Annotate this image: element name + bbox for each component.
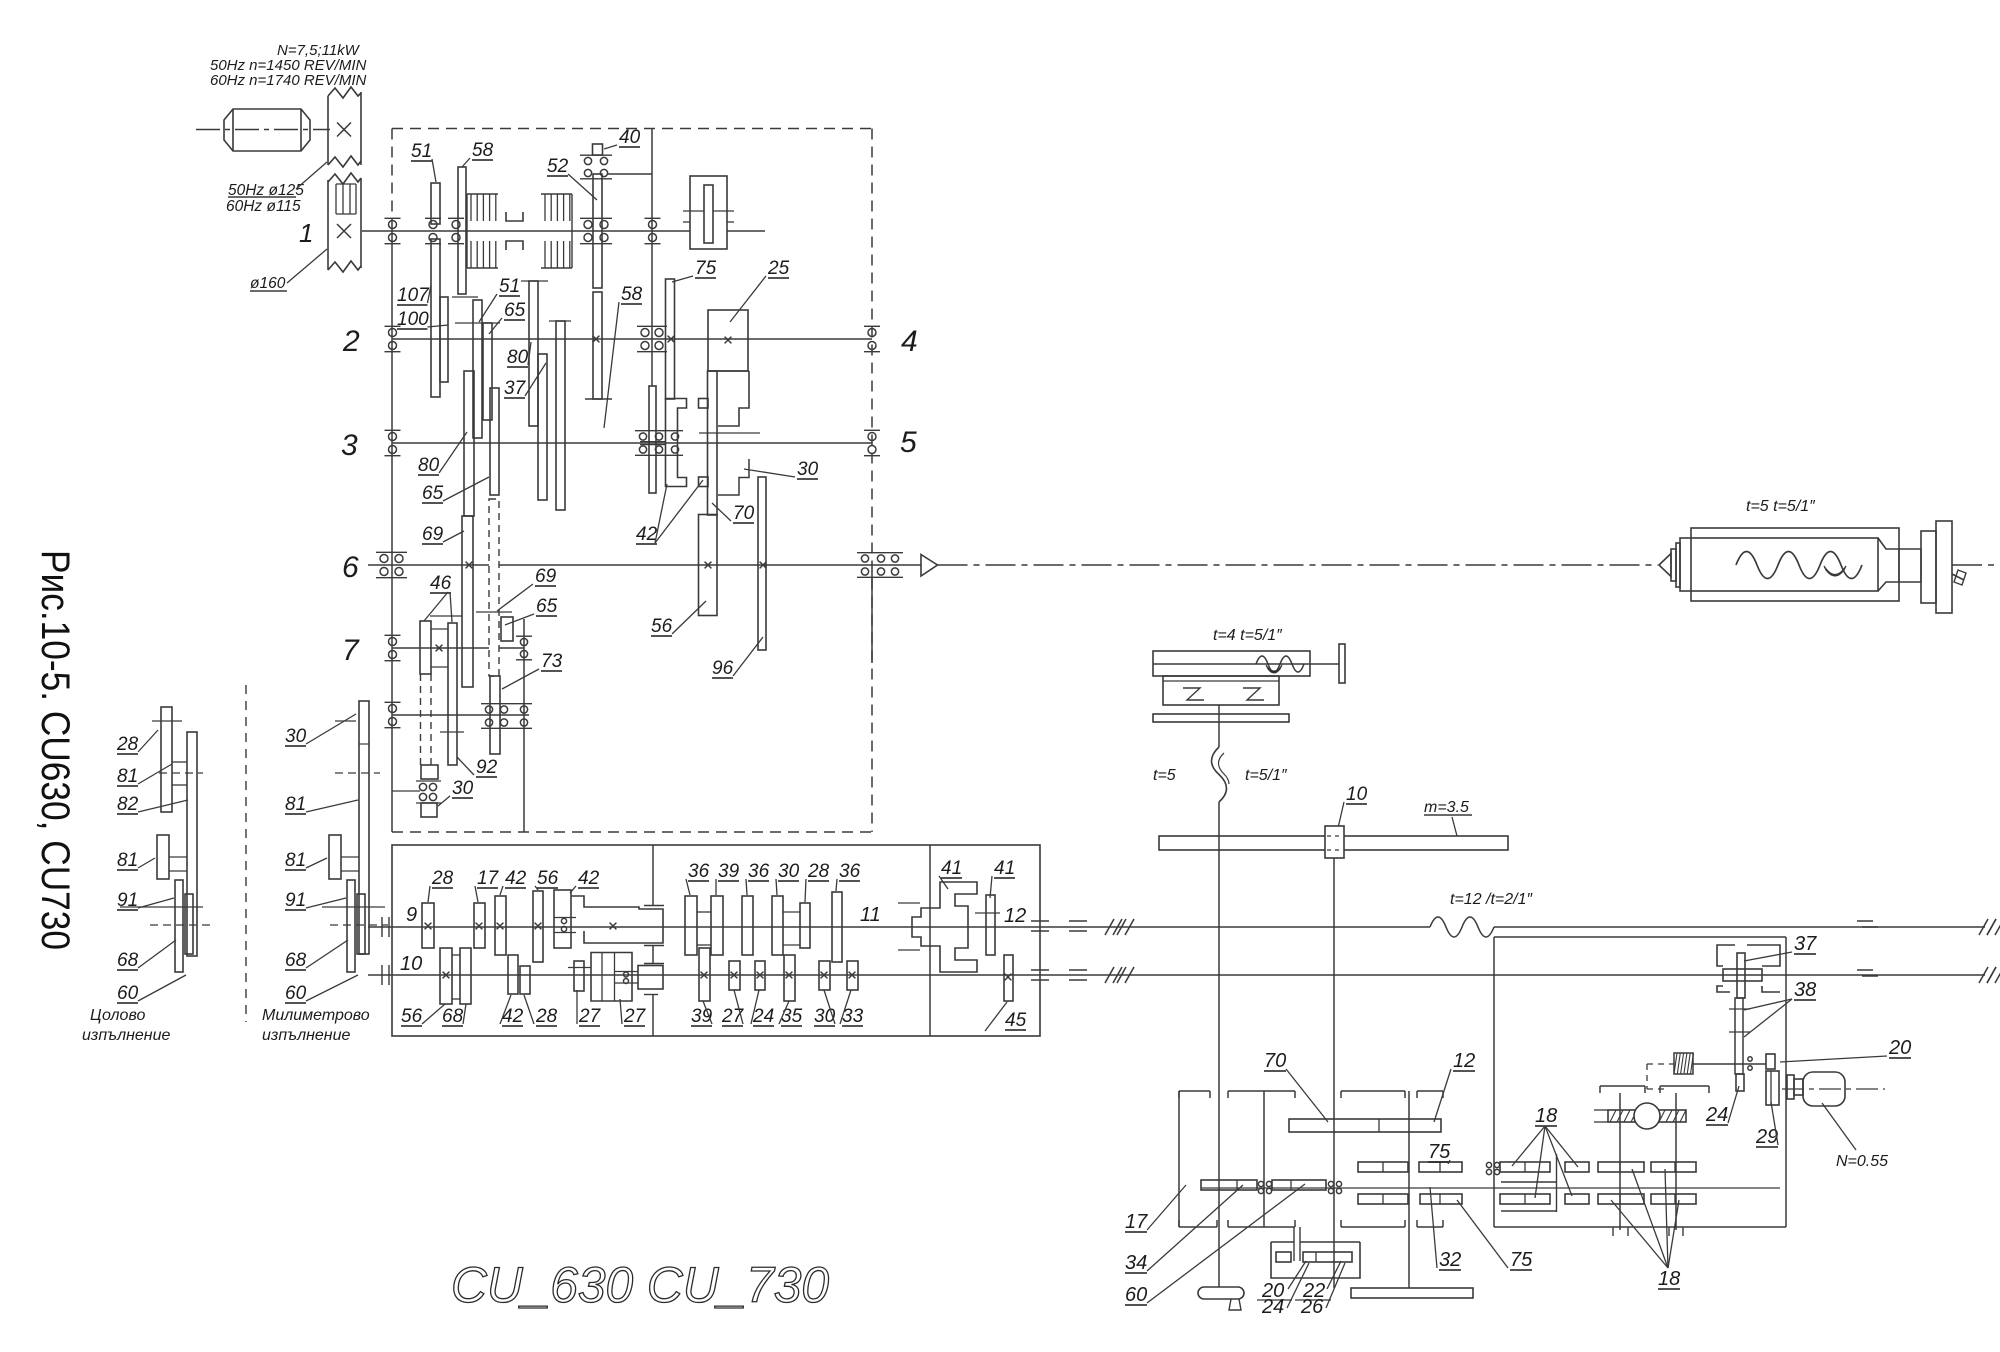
svg-text:60: 60 <box>1125 1284 1147 1306</box>
svg-text:18: 18 <box>1535 1105 1557 1127</box>
svg-text:39: 39 <box>718 861 740 882</box>
svg-text:60Hz ø115: 60Hz ø115 <box>226 198 301 215</box>
svg-text:10: 10 <box>1346 784 1368 805</box>
svg-text:24: 24 <box>1705 1104 1728 1126</box>
svg-text:t=5: t=5 <box>1153 767 1176 784</box>
svg-text:75: 75 <box>695 258 717 279</box>
svg-text:38: 38 <box>1794 979 1816 1001</box>
svg-text:65: 65 <box>536 596 558 617</box>
svg-text:82: 82 <box>117 794 139 815</box>
svg-text:24: 24 <box>752 1006 774 1027</box>
svg-text:24: 24 <box>1261 1296 1284 1318</box>
svg-text:12: 12 <box>1004 905 1026 927</box>
svg-text:56: 56 <box>537 868 559 889</box>
svg-text:52: 52 <box>547 156 569 177</box>
svg-text:75: 75 <box>1428 1141 1451 1163</box>
svg-text:t=5/1″: t=5/1″ <box>1245 767 1288 784</box>
svg-text:56: 56 <box>651 616 673 637</box>
svg-text:29: 29 <box>1755 1126 1778 1148</box>
svg-text:30: 30 <box>452 778 474 799</box>
svg-text:6: 6 <box>342 551 359 584</box>
svg-text:69: 69 <box>422 524 444 545</box>
svg-text:42: 42 <box>505 868 527 889</box>
svg-text:N=0.55: N=0.55 <box>1836 1153 1888 1170</box>
svg-text:73: 73 <box>541 651 563 672</box>
svg-text:96: 96 <box>712 658 734 679</box>
svg-text:81: 81 <box>285 794 306 815</box>
svg-text:37: 37 <box>1794 933 1817 955</box>
svg-text:10: 10 <box>400 953 422 975</box>
svg-text:1: 1 <box>299 218 313 248</box>
svg-text:2: 2 <box>342 325 360 358</box>
svg-text:Милиметрово: Милиметрово <box>262 1007 370 1024</box>
svg-text:28: 28 <box>116 734 139 755</box>
svg-text:42: 42 <box>578 868 600 889</box>
svg-text:60: 60 <box>117 983 139 1004</box>
svg-text:m=3.5: m=3.5 <box>1424 799 1469 816</box>
svg-text:65: 65 <box>422 483 444 504</box>
svg-text:51: 51 <box>411 141 432 162</box>
svg-text:36: 36 <box>688 861 710 882</box>
svg-text:CU_630 CU_730: CU_630 CU_730 <box>451 1257 829 1313</box>
svg-text:70: 70 <box>733 503 755 524</box>
svg-text:30: 30 <box>778 861 800 882</box>
svg-text:7: 7 <box>342 634 360 667</box>
svg-text:17: 17 <box>1125 1211 1148 1233</box>
svg-text:ø160: ø160 <box>250 275 286 292</box>
svg-text:81: 81 <box>117 766 138 787</box>
svg-text:46: 46 <box>430 573 452 594</box>
svg-text:68: 68 <box>442 1006 464 1027</box>
svg-text:51: 51 <box>499 276 520 297</box>
svg-text:11: 11 <box>860 904 881 926</box>
svg-text:41: 41 <box>994 858 1015 879</box>
svg-text:32: 32 <box>1439 1249 1461 1271</box>
svg-text:65: 65 <box>504 300 526 321</box>
svg-text:12: 12 <box>1453 1050 1475 1072</box>
svg-text:36: 36 <box>839 861 861 882</box>
svg-text:80: 80 <box>418 455 440 476</box>
svg-text:100: 100 <box>397 309 429 330</box>
svg-text:58: 58 <box>621 284 643 305</box>
svg-text:3: 3 <box>341 429 358 462</box>
svg-text:30: 30 <box>285 726 307 747</box>
svg-text:18: 18 <box>1658 1268 1680 1290</box>
svg-text:28: 28 <box>807 861 830 882</box>
svg-text:30: 30 <box>797 459 819 480</box>
svg-text:56: 56 <box>401 1006 423 1027</box>
svg-text:58: 58 <box>472 140 494 161</box>
svg-text:26: 26 <box>1300 1296 1324 1318</box>
svg-text:t=12 /t=2/1″: t=12 /t=2/1″ <box>1450 891 1534 908</box>
svg-text:9: 9 <box>406 904 417 926</box>
svg-text:60: 60 <box>285 983 307 1004</box>
svg-text:25: 25 <box>767 258 790 279</box>
svg-text:41: 41 <box>941 858 962 879</box>
svg-text:60Hz n=1740 REV/MIN: 60Hz n=1740 REV/MIN <box>210 72 366 89</box>
svg-text:20: 20 <box>1888 1037 1911 1059</box>
svg-text:91: 91 <box>285 890 306 911</box>
svg-text:17: 17 <box>477 868 500 889</box>
svg-text:91: 91 <box>117 890 138 911</box>
svg-text:изпълнение: изпълнение <box>82 1027 171 1044</box>
svg-text:5: 5 <box>900 426 917 459</box>
svg-text:107: 107 <box>397 285 430 306</box>
svg-text:40: 40 <box>619 127 641 148</box>
svg-text:45: 45 <box>1005 1010 1027 1031</box>
svg-text:37: 37 <box>504 378 527 399</box>
svg-text:27: 27 <box>578 1006 602 1027</box>
svg-text:81: 81 <box>117 850 138 871</box>
svg-text:Цолово: Цолово <box>90 1007 145 1024</box>
svg-text:28: 28 <box>535 1006 558 1027</box>
svg-text:35: 35 <box>781 1006 803 1027</box>
svg-text:42: 42 <box>636 524 658 545</box>
svg-text:75: 75 <box>1510 1249 1533 1271</box>
svg-text:80: 80 <box>507 347 529 368</box>
svg-text:36: 36 <box>748 861 770 882</box>
svg-text:Рис.10-5. CU630, CU730: Рис.10-5. CU630, CU730 <box>33 550 77 950</box>
svg-text:68: 68 <box>285 950 307 971</box>
svg-text:t=5 t=5/1″: t=5 t=5/1″ <box>1746 498 1816 515</box>
svg-text:34: 34 <box>1125 1252 1147 1274</box>
svg-text:изпълнение: изпълнение <box>262 1027 351 1044</box>
svg-text:28: 28 <box>431 868 454 889</box>
svg-text:4: 4 <box>901 325 918 358</box>
svg-text:81: 81 <box>285 850 306 871</box>
svg-text:t=4 t=5/1″: t=4 t=5/1″ <box>1213 627 1283 644</box>
svg-text:69: 69 <box>535 566 557 587</box>
svg-text:92: 92 <box>476 757 498 778</box>
svg-text:27: 27 <box>623 1006 647 1027</box>
svg-text:70: 70 <box>1264 1050 1286 1072</box>
svg-text:68: 68 <box>117 950 139 971</box>
